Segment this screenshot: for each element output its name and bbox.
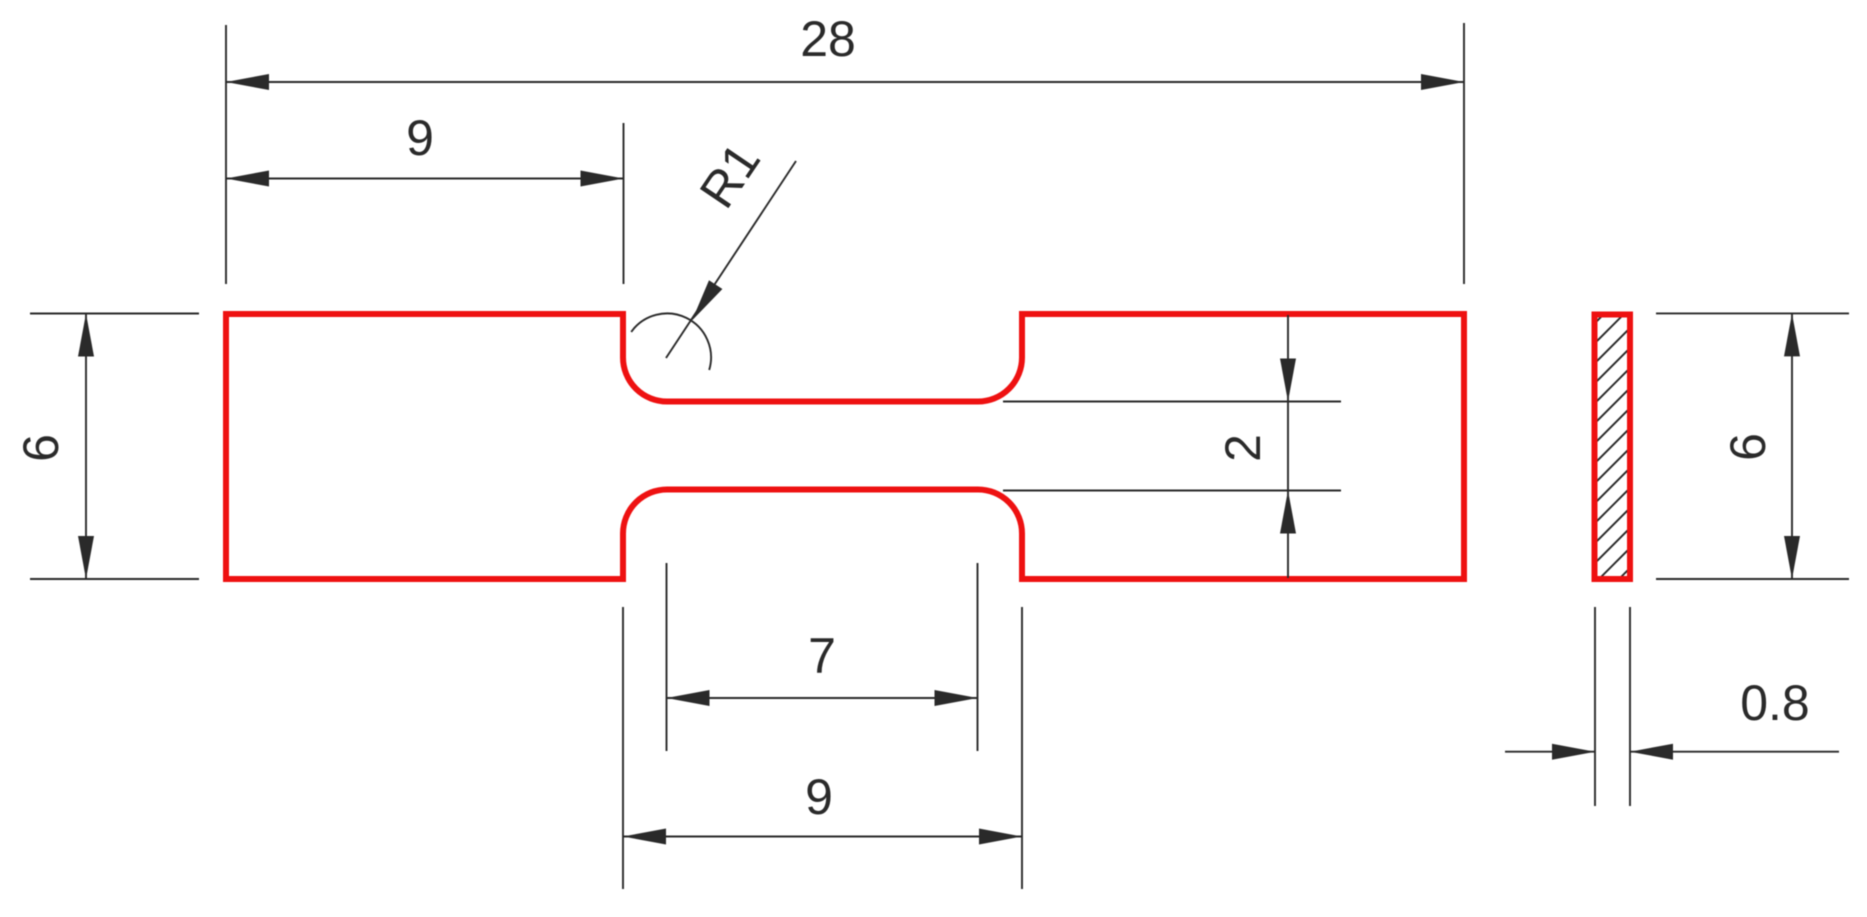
svg-text:9: 9	[406, 110, 434, 166]
svg-text:9: 9	[805, 769, 833, 825]
svg-text:28: 28	[800, 11, 856, 67]
svg-text:7: 7	[808, 628, 836, 684]
svg-text:2: 2	[1215, 434, 1271, 462]
svg-text:0.8: 0.8	[1740, 675, 1810, 731]
svg-text:6: 6	[1720, 433, 1776, 461]
svg-text:6: 6	[13, 434, 69, 462]
